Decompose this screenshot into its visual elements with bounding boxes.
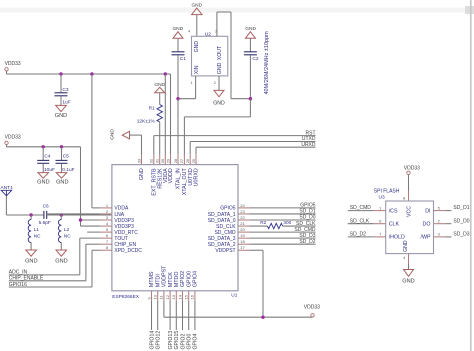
svg-text:MTMS: MTMS xyxy=(149,271,155,287)
svg-text:GND: GND xyxy=(217,62,223,74)
pin 25 U0RXD xyxy=(195,155,197,165)
svg-text:SD_D0: SD_D0 xyxy=(453,218,469,224)
pin 10 MTDI xyxy=(157,291,159,301)
wire rail drop to pin 30 xyxy=(164,74,166,155)
wire SD_CMD net xyxy=(348,210,374,212)
pin 29 VDDD xyxy=(170,155,172,165)
svg-text:L1: L1 xyxy=(34,227,40,233)
svg-text:21: 21 xyxy=(240,221,245,226)
wire pin 17 VDDPST branch xyxy=(250,249,263,251)
pin 1 /CS xyxy=(374,210,386,212)
wire pin 4 VDD3P3 xyxy=(81,225,100,227)
svg-text:URXD: URXD xyxy=(301,142,316,148)
pin 30 VDDA xyxy=(164,155,166,165)
wire rail corner drop to pin 29 xyxy=(170,74,172,155)
svg-text:C5: C5 xyxy=(63,154,69,160)
svg-text:12K±1%: 12K±1% xyxy=(137,118,156,124)
inductor L1 (NC) xyxy=(30,215,32,220)
wire VCC xyxy=(408,175,410,191)
svg-text:SD_CLK: SD_CLK xyxy=(350,218,370,224)
svg-text:XTAL_IN: XTAL_IN xyxy=(176,168,182,189)
wire VDD33 rail 2 xyxy=(6,145,8,147)
wire pin 1 VDDA stub to riser xyxy=(92,207,100,209)
svg-text:22: 22 xyxy=(240,215,245,220)
pin 7 CHIP_EN xyxy=(100,243,112,245)
capacitor C2 xyxy=(249,38,251,51)
svg-text:300: 300 xyxy=(283,220,291,225)
ground below U2 pin 2 xyxy=(214,90,224,96)
wire SD_D3 net xyxy=(250,237,316,239)
ground below U3 xyxy=(404,270,414,277)
wire rail 2 drop to pins 3/4 xyxy=(80,147,82,226)
svg-text:R2: R2 xyxy=(260,220,266,225)
svg-text:GND: GND xyxy=(37,180,49,186)
wire pin 8 XPD_DCDC to GPIO16 xyxy=(92,249,100,251)
pin 2 DO xyxy=(434,223,446,225)
pin 4 GND xyxy=(408,254,410,264)
IC U3 SPI FLASH xyxy=(386,201,434,254)
svg-text:0.1uF: 0.1uF xyxy=(62,167,74,173)
pin 27 XTAL_OUT xyxy=(183,155,185,165)
node VDD33/C3 junction xyxy=(59,72,62,75)
pin 31 RES12K xyxy=(159,155,161,165)
capacitor C4 xyxy=(42,147,44,160)
wire GPIO5 net xyxy=(250,207,316,209)
svg-text:GND: GND xyxy=(213,100,225,106)
pin 26 U0TXD xyxy=(189,155,191,165)
svg-text:14: 14 xyxy=(177,294,182,299)
svg-text:GPIO2: GPIO2 xyxy=(180,334,186,350)
IC U1 ESP8266EX xyxy=(112,165,238,291)
node L2 junction xyxy=(60,213,63,216)
wire XTAL_IN to chip pin 28 xyxy=(177,99,179,155)
pin 7 /HOLD xyxy=(374,236,386,238)
svg-text:C6: C6 xyxy=(43,203,49,209)
ground below C4 xyxy=(38,173,49,179)
wire SD_D0 net xyxy=(250,219,316,221)
pin 22 SD_DATA_0 xyxy=(238,219,250,221)
svg-text:31: 31 xyxy=(155,158,160,163)
svg-text:GND: GND xyxy=(194,41,200,53)
VDD33 power terminal (bottom) xyxy=(311,314,314,317)
pin 11 VDDPST xyxy=(163,291,165,301)
svg-text:20: 20 xyxy=(240,227,245,232)
svg-text:40M/26M/24MHz ±10ppm: 40M/26M/24MHz ±10ppm xyxy=(264,31,270,95)
svg-text:U3: U3 xyxy=(379,194,385,200)
svg-text:1uF: 1uF xyxy=(62,100,70,106)
svg-text:12: 12 xyxy=(165,294,170,299)
svg-text:GPIO0: GPIO0 xyxy=(186,271,192,287)
pin 15 GPIO0 xyxy=(188,291,190,301)
wire SD_D2 net xyxy=(348,236,374,238)
svg-text:C2: C2 xyxy=(252,56,258,62)
crystal U2 xyxy=(192,36,228,76)
svg-text:SPI FLASH: SPI FLASH xyxy=(374,189,400,195)
wire VDD33 rail xyxy=(6,71,8,74)
pin 1 VDDA xyxy=(100,207,112,209)
node C5 junction xyxy=(60,145,63,148)
wire pin 3 VDD3P3 xyxy=(81,219,100,221)
svg-text:19: 19 xyxy=(240,233,245,238)
inductor L2 (NC) xyxy=(60,215,62,220)
pin 18 SD_DATA_2 xyxy=(238,243,250,245)
svg-text:C3: C3 xyxy=(62,87,68,93)
capacitor C1 xyxy=(177,38,179,51)
svg-text:GND: GND xyxy=(25,258,37,264)
wire U2 pin 4 xyxy=(196,15,198,37)
node XTAL_OUT junction xyxy=(249,97,252,100)
node L1 junction xyxy=(29,213,32,216)
wire XTAL_OUT to chip pin 27 xyxy=(249,99,251,117)
svg-text:15: 15 xyxy=(184,294,189,299)
wire SD_D2 net xyxy=(250,243,316,245)
svg-text:CLK: CLK xyxy=(389,222,400,228)
svg-text:GND: GND xyxy=(245,26,256,32)
wire pin 2 LNA stub xyxy=(47,213,100,215)
wire SD_D1 net xyxy=(250,213,316,215)
wire SD_D0 net xyxy=(446,223,452,225)
svg-text:/WP: /WP xyxy=(420,235,430,241)
svg-text:GND: GND xyxy=(139,168,145,180)
svg-text:DI: DI xyxy=(425,208,430,214)
pin 16 GPIO4 xyxy=(194,291,196,301)
svg-text:VDDPST: VDDPST xyxy=(162,265,168,287)
svg-text:VDD33: VDD33 xyxy=(404,165,420,171)
svg-text:13: 13 xyxy=(171,294,176,299)
wire pin 7 CHIP_EN to CHIP_ENABLE xyxy=(86,243,100,245)
svg-text:GPIO13: GPIO13 xyxy=(168,331,174,350)
ground below L2 xyxy=(56,250,67,256)
wire SD_CLK net xyxy=(348,223,374,225)
svg-text:C1: C1 xyxy=(180,56,186,62)
pin 20 SD_CMD xyxy=(238,231,250,233)
svg-text:VDD33: VDD33 xyxy=(5,61,21,67)
svg-text:C4: C4 xyxy=(44,154,50,160)
svg-text:GND: GND xyxy=(55,113,67,119)
svg-text:SD_CMD: SD_CMD xyxy=(350,205,372,211)
svg-text:23: 23 xyxy=(240,209,245,214)
pin 28 XTAL_IN xyxy=(177,155,179,165)
pin 5 DI xyxy=(434,210,446,212)
wire C3 to ground xyxy=(60,96,62,105)
svg-text:32: 32 xyxy=(149,158,154,163)
svg-text:VDD33: VDD33 xyxy=(304,305,320,311)
capacitor C6 (series) xyxy=(43,211,45,219)
pin 3 /WP xyxy=(434,236,446,238)
wire VDDA riser (rail to pin 1) xyxy=(91,74,93,208)
svg-text:28: 28 xyxy=(173,158,178,163)
wire GPIO0 net xyxy=(188,301,190,330)
wire pin 6 TOUT to ADC_IN xyxy=(80,237,100,239)
wire URXD net xyxy=(195,147,197,154)
pin 8 XPD_DCDC xyxy=(100,249,112,251)
pin 14 GPIO2 xyxy=(182,291,184,301)
svg-text:GND: GND xyxy=(55,258,67,264)
svg-text:GPIO14: GPIO14 xyxy=(149,331,155,350)
svg-text:26: 26 xyxy=(185,158,190,163)
pin 4 VDD3P3 xyxy=(100,225,112,227)
wire GPIO12 net xyxy=(157,301,159,330)
node XTAL_IN junction xyxy=(176,97,179,100)
svg-text:GND: GND xyxy=(403,240,409,252)
svg-text:17: 17 xyxy=(240,245,245,250)
svg-text:16: 16 xyxy=(190,294,195,299)
node VDD33/pin30 junction xyxy=(164,72,167,75)
svg-text:MTDI: MTDI xyxy=(155,274,161,287)
wire RST net xyxy=(153,136,155,155)
svg-text:GPIO15: GPIO15 xyxy=(174,331,180,350)
svg-text:XPD_DCDC: XPD_DCDC xyxy=(114,248,142,254)
capacitor C3 xyxy=(60,74,62,92)
svg-text:NC: NC xyxy=(64,233,71,239)
svg-text:SD_D1: SD_D1 xyxy=(453,205,469,211)
pin 6 TOUT xyxy=(100,237,112,239)
wire GPIO2 net xyxy=(182,301,184,330)
svg-text:U1: U1 xyxy=(231,293,237,299)
pin 21 SD_CLK xyxy=(238,225,250,227)
svg-text:27: 27 xyxy=(179,158,184,163)
svg-text:29: 29 xyxy=(165,158,170,163)
svg-text:ESP8266EX: ESP8266EX xyxy=(112,294,139,300)
wire GPIO14 net xyxy=(151,301,153,330)
node VDD3P3 junction xyxy=(79,218,82,221)
pin 17 VDDPST xyxy=(238,249,250,251)
svg-text:GND: GND xyxy=(56,180,68,186)
svg-text:5.6pF: 5.6pF xyxy=(39,220,51,226)
pin 5 VDD_RTC xyxy=(100,231,112,233)
pin 12 MTCK xyxy=(169,291,171,301)
wire GPIO4 net xyxy=(194,301,196,330)
svg-text:/HOLD: /HOLD xyxy=(389,235,405,241)
wire VDDPST rail (pin 11) xyxy=(163,301,165,317)
svg-text:XOUT: XOUT xyxy=(217,45,223,60)
svg-text:NC: NC xyxy=(34,233,41,239)
svg-text:MTCK: MTCK xyxy=(168,272,174,287)
wire UTXD net xyxy=(189,142,191,155)
svg-text:GPIO2: GPIO2 xyxy=(180,271,186,287)
svg-text:GND: GND xyxy=(109,129,115,140)
wire SD_CLK to R2 xyxy=(250,225,267,227)
pin 6 CLK xyxy=(374,223,386,225)
svg-text:SD_D2: SD_D2 xyxy=(299,239,315,245)
svg-text:GPIO0: GPIO0 xyxy=(187,334,193,350)
wire SD_CMD net xyxy=(250,231,316,233)
svg-text:XIN: XIN xyxy=(194,65,200,74)
wire C6 to LNA pin xyxy=(47,214,112,216)
pin 23 SD_DATA_1 xyxy=(238,213,250,215)
ground below L1 xyxy=(26,250,37,256)
wire SD_D1 net xyxy=(446,210,452,212)
svg-text:VDD33: VDD33 xyxy=(5,135,21,141)
svg-text:U0RXD: U0RXD xyxy=(194,168,200,186)
pin 32 EXT_RSTB xyxy=(153,155,155,165)
ground below C3 xyxy=(56,105,67,111)
svg-text:DO: DO xyxy=(423,222,431,228)
pin 19 SD_DATA_3 xyxy=(238,237,250,239)
pin 33 GND xyxy=(141,155,143,165)
wire antenna to LNA xyxy=(5,196,7,215)
svg-text:L2: L2 xyxy=(64,227,70,233)
wire flash GND xyxy=(408,264,410,270)
wire SD_D3 net xyxy=(446,236,452,238)
svg-text:10uF: 10uF xyxy=(44,167,55,173)
svg-text:GPIO12: GPIO12 xyxy=(156,331,162,350)
capacitor C5 xyxy=(61,147,63,160)
pin 8 VCC xyxy=(408,191,410,201)
pin 24 GPIO5 xyxy=(238,207,250,209)
wire C1 to XTAL_IN node xyxy=(177,55,179,98)
svg-text:/CS: /CS xyxy=(389,208,398,214)
wire GPIO15 net xyxy=(175,301,177,330)
svg-text:SD_D2: SD_D2 xyxy=(350,232,366,238)
svg-text:GPIO4: GPIO4 xyxy=(193,271,199,287)
svg-text:R1: R1 xyxy=(149,105,155,111)
pin 3 VDD3P3 xyxy=(100,219,112,221)
wire pin 33 to ground xyxy=(130,134,142,136)
svg-text:U2: U2 xyxy=(205,31,211,37)
svg-text:VCC: VCC xyxy=(406,206,412,217)
resistor R2 300 xyxy=(267,223,282,228)
svg-text:33: 33 xyxy=(136,158,141,163)
svg-text:18: 18 xyxy=(240,239,245,244)
ground below C5 xyxy=(56,173,67,179)
svg-text:GPIO4: GPIO4 xyxy=(193,334,199,350)
svg-text:VDDD: VDDD xyxy=(168,168,174,183)
svg-text:SD_D3: SD_D3 xyxy=(453,232,469,238)
svg-text:MTDO: MTDO xyxy=(174,272,180,288)
node VDDPST junction xyxy=(261,316,264,319)
svg-text:VDDPST: VDDPST xyxy=(215,248,235,254)
wire R2 to SD_CLK label xyxy=(283,225,316,227)
svg-text:24: 24 xyxy=(240,203,245,208)
node C4 junction xyxy=(42,145,45,148)
svg-text:25: 25 xyxy=(191,158,196,163)
pin 2 LNA xyxy=(100,213,112,215)
svg-text:10: 10 xyxy=(153,294,158,299)
wire pin 5 VDD_RTC stub (NC) xyxy=(87,231,100,233)
wire R1 to pin 31 xyxy=(159,122,161,155)
wire GPIO13 net xyxy=(169,301,171,330)
svg-text:GND: GND xyxy=(402,278,414,284)
pin 9 MTMS xyxy=(151,291,153,301)
pin 13 MTDO xyxy=(175,291,177,301)
node VDD33/VDDA-riser junction xyxy=(90,72,93,75)
